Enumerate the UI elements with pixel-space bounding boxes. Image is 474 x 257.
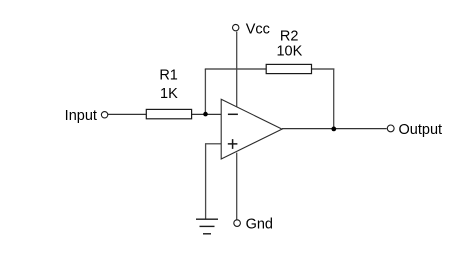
terminal Vcc — [233, 24, 239, 30]
wire non-inverting input down to ground — [205, 143, 207, 219]
resistor R1 — [146, 109, 191, 118]
svg-text:Input: Input — [65, 108, 97, 124]
node junction dot at inverting input — [203, 112, 208, 117]
wire input to op-amp inverting input — [108, 113, 222, 115]
svg-text:R1: R1 — [159, 67, 178, 83]
op-amp inverting input minus sign — [228, 113, 238, 115]
wire R2 right to corner — [311, 68, 334, 70]
svg-text:1K: 1K — [160, 86, 178, 102]
wire output — [282, 128, 387, 130]
wire feedback top horizontal — [205, 68, 267, 70]
wire feedback left vertical — [204, 69, 206, 114]
wire op-amp non-inverting input — [205, 143, 221, 145]
resistor R2 — [266, 64, 311, 73]
op-amp non-inverting input plus sign — [228, 139, 238, 149]
wire Vcc vertical — [236, 32, 238, 108]
svg-text:10K: 10K — [276, 44, 302, 60]
op-amp U1 triangle — [221, 99, 282, 159]
ground symbol — [196, 219, 218, 234]
svg-text:R2: R2 — [280, 28, 299, 44]
svg-text:Vcc: Vcc — [246, 22, 270, 38]
svg-text:Output: Output — [399, 122, 443, 138]
terminal Output — [387, 125, 394, 132]
svg-text:Gnd: Gnd — [246, 217, 273, 233]
terminal Gnd — [234, 220, 241, 227]
node junction dot at output — [331, 126, 336, 131]
wire Gnd vertical — [236, 153, 238, 220]
wire right vertical to output node — [333, 68, 335, 128]
terminal Input — [101, 112, 107, 118]
